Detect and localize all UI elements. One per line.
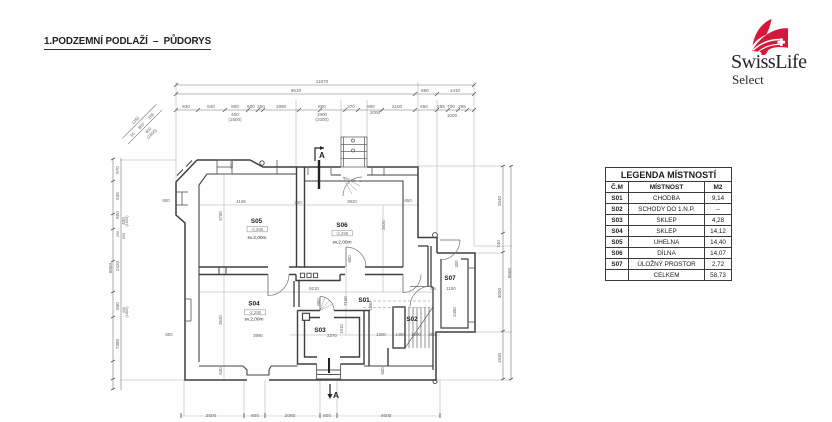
svg-text:370: 370 bbox=[347, 104, 355, 109]
svg-text:1300: 1300 bbox=[376, 332, 386, 337]
S07 inner box bbox=[441, 259, 468, 328]
mid wall between top and bottom rooms bbox=[199, 267, 403, 281]
svg-text:A: A bbox=[319, 151, 325, 160]
svg-text:970: 970 bbox=[115, 166, 120, 174]
svg-text:900: 900 bbox=[367, 104, 375, 109]
svg-text:7150: 7150 bbox=[343, 296, 348, 306]
svg-text:600: 600 bbox=[229, 161, 234, 169]
svg-text:600: 600 bbox=[380, 367, 385, 375]
dimension chains: top bbox=[176, 85, 474, 110]
svg-text:(1000): (1000) bbox=[315, 117, 329, 122]
svg-text:800: 800 bbox=[115, 302, 120, 310]
outer wall bbox=[176, 160, 475, 380]
svg-text:800: 800 bbox=[316, 298, 321, 306]
svg-text:630: 630 bbox=[218, 367, 223, 375]
extension thin lines bbox=[120, 82, 512, 416]
diagonal dims top-left bbox=[118, 100, 170, 152]
porch bottom 2 (S03 entry) bbox=[317, 364, 341, 379]
svg-text:2420: 2420 bbox=[115, 260, 120, 271]
svg-text:S03: S03 bbox=[314, 327, 326, 334]
dim ticks top bbox=[174, 83, 476, 112]
svg-text:250: 250 bbox=[430, 287, 436, 291]
svg-text:800: 800 bbox=[318, 104, 326, 109]
S04 right wall bbox=[294, 281, 299, 307]
svg-text:3630: 3630 bbox=[218, 315, 223, 325]
svg-text:500: 500 bbox=[247, 104, 255, 109]
svg-text:11870: 11870 bbox=[316, 79, 329, 84]
svg-text:600: 600 bbox=[165, 332, 173, 337]
svg-text:800: 800 bbox=[251, 413, 259, 419]
svg-text:4600: 4600 bbox=[381, 413, 392, 419]
value boxes under labels bbox=[245, 227, 353, 315]
svg-text:250: 250 bbox=[116, 231, 120, 237]
svg-text:255: 255 bbox=[437, 104, 445, 109]
svg-text:2840: 2840 bbox=[497, 195, 502, 206]
svg-text:4196: 4196 bbox=[236, 199, 246, 204]
svg-text:2270: 2270 bbox=[327, 333, 337, 338]
S03 door axis thick tick bbox=[328, 358, 330, 373]
svg-text:700: 700 bbox=[447, 104, 455, 109]
svg-text:1360: 1360 bbox=[368, 301, 373, 311]
knob circles bbox=[260, 161, 438, 384]
svg-text:1930: 1930 bbox=[497, 352, 502, 363]
svg-text:(1600): (1600) bbox=[228, 117, 242, 122]
SwissLife wordmark bbox=[731, 51, 807, 74]
svg-text:1910: 1910 bbox=[339, 324, 344, 334]
room labels bbox=[248, 218, 456, 334]
svg-text:3050: 3050 bbox=[497, 287, 502, 298]
svg-text:S05: S05 bbox=[251, 218, 263, 225]
right dimension chains bbox=[503, 166, 511, 380]
svg-text:650: 650 bbox=[420, 104, 428, 109]
svg-text:300: 300 bbox=[454, 260, 459, 268]
svg-text:sv.2,00m: sv.2,00m bbox=[247, 235, 266, 241]
title bbox=[44, 36, 211, 50]
interior dim labels bbox=[162, 161, 459, 375]
window left bay bbox=[176, 160, 475, 322]
S03 walls bbox=[298, 311, 371, 365]
svg-text:(1800): (1800) bbox=[125, 306, 129, 318]
bottom dimension chain bbox=[181, 415, 440, 417]
svg-text:3920: 3920 bbox=[347, 199, 357, 204]
svg-text:2000: 2000 bbox=[370, 110, 381, 115]
svg-text:1450: 1450 bbox=[395, 332, 405, 337]
svg-text:800: 800 bbox=[115, 211, 120, 219]
inner wall lines bbox=[177, 161, 433, 376]
legend table bbox=[605, 167, 732, 281]
svg-text:9210: 9210 bbox=[309, 286, 319, 291]
svg-text:200: 200 bbox=[294, 200, 302, 205]
S02 stair pillar bbox=[369, 307, 405, 366]
svg-text:7380: 7380 bbox=[115, 338, 120, 349]
svg-text:S06: S06 bbox=[336, 222, 348, 229]
svg-text:S04: S04 bbox=[248, 301, 260, 308]
svg-text:740: 740 bbox=[496, 240, 501, 248]
top dim labels bbox=[182, 79, 466, 122]
svg-text:(1600): (1600) bbox=[125, 215, 129, 227]
section marker A top bbox=[315, 146, 325, 189]
svg-text:2080: 2080 bbox=[285, 413, 296, 419]
svg-text:250: 250 bbox=[428, 332, 436, 337]
svg-text:2450: 2450 bbox=[452, 307, 457, 317]
svg-text:3750: 3750 bbox=[218, 211, 223, 221]
svg-text:2100: 2100 bbox=[392, 104, 403, 109]
svg-text:3620: 3620 bbox=[381, 220, 386, 230]
svg-text:-2,295: -2,295 bbox=[251, 227, 264, 232]
porch top (steps) bbox=[341, 137, 367, 167]
divider wall S05/S06 bbox=[297, 167, 305, 268]
svg-text:1150: 1150 bbox=[446, 286, 456, 291]
svg-text:800: 800 bbox=[347, 255, 352, 263]
svg-text:535: 535 bbox=[115, 192, 120, 200]
svg-text:650: 650 bbox=[404, 198, 412, 203]
svg-text:-2,280: -2,280 bbox=[249, 310, 262, 315]
svg-text:8960: 8960 bbox=[108, 262, 113, 273]
svg-text:600: 600 bbox=[162, 198, 170, 203]
svg-text:800: 800 bbox=[231, 104, 239, 109]
svg-text:2500: 2500 bbox=[206, 413, 217, 419]
dashed guide lines corridor bbox=[363, 301, 430, 308]
svg-text:930: 930 bbox=[182, 104, 190, 109]
svg-text:3990: 3990 bbox=[253, 333, 263, 338]
radiator squares on mid wall bbox=[300, 273, 317, 320]
svg-text:1410: 1410 bbox=[450, 88, 461, 93]
svg-text:1000: 1000 bbox=[447, 113, 458, 118]
section marker A bottom bbox=[328, 384, 340, 400]
east wall inner bbox=[418, 246, 433, 370]
svg-text:250: 250 bbox=[257, 104, 265, 109]
svg-text:1990: 1990 bbox=[276, 104, 287, 109]
svg-text:650: 650 bbox=[421, 88, 429, 93]
svg-text:9610: 9610 bbox=[291, 88, 302, 93]
left dimension chains bbox=[113, 158, 121, 390]
SwissLife logo emblem bbox=[751, 18, 788, 55]
svg-text:S07: S07 bbox=[444, 275, 456, 282]
svg-text:sv.2,00m: sv.2,00m bbox=[332, 240, 351, 246]
svg-text:sv.2,00m: sv.2,00m bbox=[244, 317, 263, 323]
svg-text:A: A bbox=[333, 390, 339, 400]
svg-text:640: 640 bbox=[207, 104, 215, 109]
svg-text:-2,295: -2,295 bbox=[336, 231, 349, 236]
svg-text:255: 255 bbox=[458, 104, 466, 109]
svg-text:800: 800 bbox=[323, 413, 331, 419]
svg-text:605: 605 bbox=[122, 233, 126, 239]
door arcs bbox=[268, 177, 460, 311]
stair treads bbox=[405, 307, 433, 348]
svg-text:S02: S02 bbox=[406, 316, 418, 323]
svg-text:8560: 8560 bbox=[507, 267, 512, 278]
svg-text:1500: 1500 bbox=[411, 332, 421, 337]
